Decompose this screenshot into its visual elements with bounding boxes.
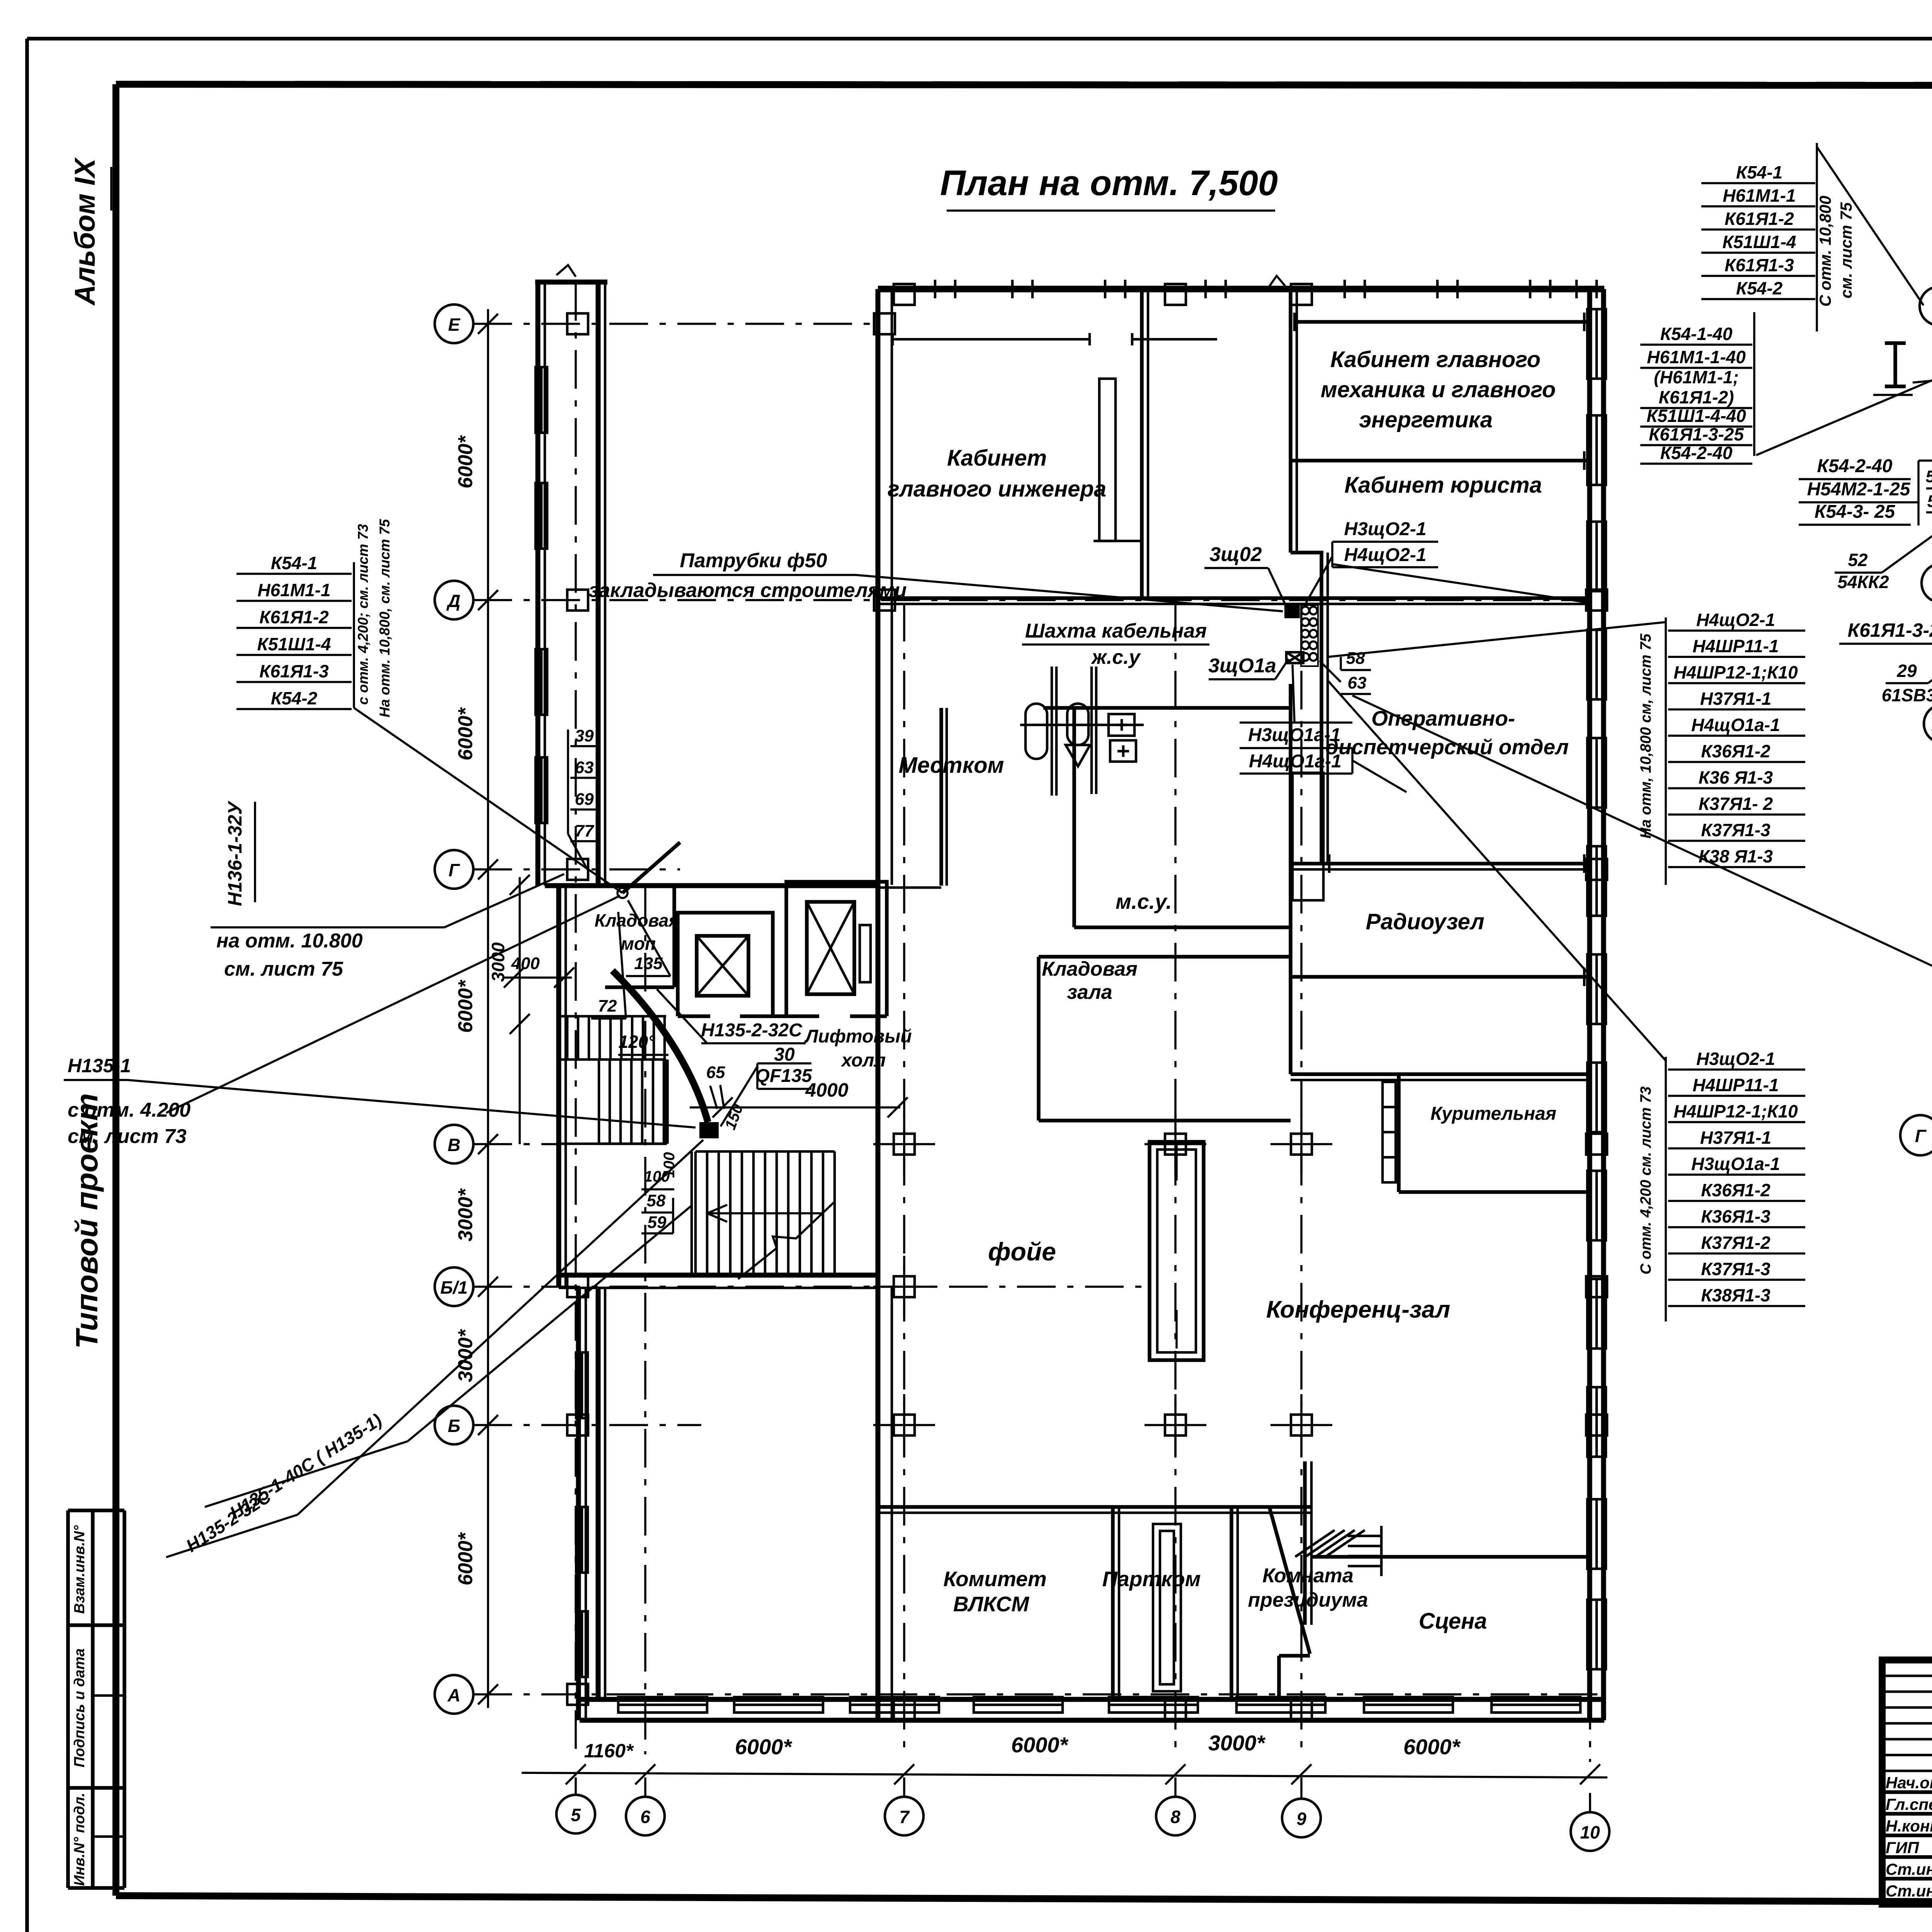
top wall break mark [1267, 276, 1285, 289]
long diagonal to section I [1352, 696, 1932, 1058]
svg-text:К61Я1-2): К61Я1-2) [1659, 387, 1734, 407]
operative room bottom [1291, 862, 1590, 866]
svg-text:Радиоузел: Радиоузел [1366, 909, 1484, 934]
svg-text:Н4ШР12-1;К10: Н4ШР12-1;К10 [1673, 1101, 1798, 1121]
svg-text:Н4щО1а-1: Н4щО1а-1 [1691, 715, 1780, 735]
furniture line engineer room [893, 338, 1090, 341]
svg-text:6000*: 6000* [454, 1532, 477, 1585]
left wing outer wall lower [576, 1287, 581, 1720]
svg-text:см. лист 75: см. лист 75 [1837, 202, 1855, 298]
VLKSM/Partkom wall [1111, 1507, 1115, 1699]
svg-text:закладываются строителями: закладываются строителями [588, 579, 906, 602]
svg-text:Г: Г [1915, 1126, 1927, 1146]
closet in engineer office [1099, 379, 1116, 541]
msu top wall [1043, 706, 1291, 710]
right wall windows [1587, 309, 1606, 379]
left dimension chain [487, 309, 489, 1708]
svg-text:6000*: 6000* [454, 707, 477, 760]
presidium corner steps [1348, 1535, 1381, 1537]
svg-text:Н37Я1-1: Н37Я1-1 [1700, 689, 1771, 709]
svg-text:фойе: фойе [988, 1237, 1056, 1266]
svg-text:Сцена: Сцена [1419, 1609, 1487, 1634]
grid column 9 [1282, 1799, 1321, 1837]
svg-text:механика и главного: механика и главного [1321, 377, 1556, 402]
QF135 switch box [699, 1122, 719, 1138]
svg-text:29: 29 [1896, 661, 1917, 681]
svg-text:К54-2-40: К54-2-40 [1660, 443, 1733, 463]
left wing column squares [567, 313, 588, 334]
svg-text:Б/1: Б/1 [440, 1277, 468, 1298]
svg-text:Н61М1-1: Н61М1-1 [257, 580, 330, 600]
msu capsule 2 [1067, 704, 1088, 745]
svg-text:58: 58 [647, 1191, 666, 1210]
stairs arrow [707, 1212, 823, 1214]
svg-text:Н.контр.: Н.контр. [1886, 1817, 1932, 1835]
grid row В [435, 1125, 473, 1163]
svg-text:61SВ3: 61SВ3 [1882, 685, 1932, 705]
svg-text:К36Я1-2: К36Я1-2 [1701, 741, 1770, 761]
svg-text:Н3щО1а-1: Н3щО1а-1 [1691, 1154, 1780, 1174]
shaft switchboard 3shch02 black [1284, 605, 1300, 618]
svg-text:Н4щО2-1: Н4щО2-1 [1696, 610, 1775, 630]
svg-text:Н135-1: Н135-1 [68, 1055, 131, 1077]
svg-text:К61Я1-2: К61Я1-2 [259, 607, 329, 627]
svg-text:58: 58 [1926, 467, 1932, 486]
grid row А [435, 1675, 473, 1714]
svg-text:Кабинет главного: Кабинет главного [1330, 347, 1541, 372]
D row axis across plan [881, 599, 1590, 601]
banister [665, 1060, 669, 1144]
svg-text:Н135-2-32С: Н135-2-32С [701, 1020, 803, 1041]
A row axis across plan [607, 1693, 1604, 1696]
svg-text:Н4ШР11-1: Н4ШР11-1 [1692, 636, 1779, 656]
roof grid circles [1920, 287, 1932, 325]
leader H135-2-32C [657, 989, 707, 1043]
svg-text:Б: Б [448, 1416, 461, 1436]
svg-text:3щО1а: 3щО1а [1208, 655, 1276, 677]
leader 30/QF135 to box [721, 1066, 757, 1126]
B1 row axis into foyer [881, 1286, 1144, 1288]
left wing windows upper [536, 367, 547, 433]
stair block west wall [556, 886, 561, 1287]
svg-text:см. лист 75: см. лист 75 [224, 958, 344, 980]
main left wall [876, 289, 881, 1720]
svg-text:К61Я1-3-25: К61Я1-3-25 [1649, 424, 1744, 444]
svg-text:К37Я1-2: К37Я1-2 [1701, 1233, 1770, 1253]
svg-text:К54-1-40: К54-1-40 [1660, 324, 1733, 344]
svg-text:Партком: Партком [1102, 1567, 1201, 1591]
svg-text:К54-1: К54-1 [271, 553, 317, 573]
svg-text:Д: Д [446, 591, 460, 611]
main right wall [1587, 289, 1592, 1720]
svg-text:К37Я1- 2: К37Я1- 2 [1699, 794, 1773, 814]
svg-text:63: 63 [1348, 673, 1367, 692]
svg-text:Н54М2-1-25: Н54М2-1-25 [1807, 479, 1911, 500]
svg-text:Ст.инж: Ст.инж [1886, 1860, 1932, 1878]
stage mini steps [1295, 1530, 1335, 1557]
svg-text:Альбом IX: Альбом IX [69, 157, 101, 306]
svg-text:К51Ш1-4-40: К51Ш1-4-40 [1646, 406, 1746, 426]
stairs left flight band [599, 1143, 667, 1145]
svg-text:К61Я1-3-25: К61Я1-3-25 [1847, 619, 1932, 641]
svg-text:К38 Я1-3: К38 Я1-3 [1699, 846, 1773, 866]
left wall column squares [874, 313, 895, 334]
svg-text:План на отм. 7,500: План на отм. 7,500 [940, 163, 1278, 203]
svg-text:На отм. 10,800, см. лист 75: На отм. 10,800, см. лист 75 [377, 519, 393, 718]
svg-text:К38Я1-3: К38Я1-3 [1701, 1285, 1770, 1305]
svg-text:К37Я1-3: К37Я1-3 [1701, 820, 1770, 840]
partition mechanika top [1294, 320, 1590, 324]
svg-text:ГИП: ГИП [1886, 1838, 1919, 1857]
left wing windows lower [576, 1352, 588, 1418]
secondary dim 3000 near stairs [519, 877, 521, 1144]
svg-text:К61Я1-2: К61Я1-2 [1725, 209, 1794, 229]
svg-text:39: 39 [575, 726, 594, 745]
msu capsule 1 [1026, 704, 1047, 759]
svg-text:С отм. 10,800: С отм. 10,800 [1816, 196, 1834, 306]
svg-text:К51Ш1-4: К51Ш1-4 [1723, 232, 1796, 252]
bottom dimension line [522, 1773, 1607, 1777]
svg-text:1160*: 1160* [584, 1740, 634, 1762]
svg-text:К36Я1-3: К36Я1-3 [1701, 1206, 1770, 1226]
interior columns [1165, 1134, 1186, 1155]
svg-text:65: 65 [706, 1063, 725, 1082]
junction dot kladovaya [617, 888, 628, 898]
svg-text:С отм. 4,200 см. лист 73: С отм. 4,200 см. лист 73 [1638, 1086, 1654, 1274]
grid row Д [435, 581, 473, 619]
svg-text:72: 72 [598, 997, 617, 1015]
title block upper small rows [1882, 1675, 1932, 1677]
svg-text:77: 77 [575, 821, 595, 840]
svg-text:63: 63 [575, 758, 594, 777]
svg-text:3000: 3000 [488, 942, 508, 982]
svg-text:Н61М1-1-40: Н61М1-1-40 [1647, 347, 1746, 367]
svg-text:президиума: президиума [1248, 1589, 1368, 1611]
bottom rooms top wall [878, 1505, 1312, 1509]
svg-text:А: А [447, 1685, 460, 1705]
svg-text:Кабинет: Кабинет [947, 446, 1047, 471]
svg-text:5: 5 [571, 1805, 581, 1825]
svg-text:на отм. 10.800: на отм. 10.800 [216, 930, 363, 952]
partition doubles [1118, 1507, 1121, 1699]
section mark I (near roof) [1893, 343, 1897, 386]
svg-text:Е: Е [448, 315, 461, 335]
svg-text:К51Ш1-4: К51Ш1-4 [257, 634, 331, 654]
lift shaft 2 [786, 882, 887, 1016]
stairs break line [738, 1202, 835, 1279]
main top wall [878, 286, 1604, 293]
svg-text:54КК2: 54КК2 [1837, 572, 1889, 592]
svg-text:4000: 4000 [805, 1079, 848, 1101]
kuritelnaya walls [1397, 1074, 1401, 1192]
svg-text:К37Я1-3: К37Я1-3 [1701, 1259, 1770, 1279]
svg-text:3щ02: 3щ02 [1209, 543, 1262, 566]
svg-text:Взам.инв.N°: Взам.инв.N° [71, 1525, 88, 1614]
svg-text:Н37Я1-1: Н37Я1-1 [1700, 1128, 1771, 1148]
svg-text:3000*: 3000* [454, 1188, 477, 1242]
kuritelnaya shaft [1383, 1082, 1396, 1182]
stairs lower flight [696, 1150, 835, 1153]
svg-text:6000*: 6000* [1011, 1733, 1069, 1757]
leaders kladovaya junction [628, 900, 670, 976]
leader from 39/63 stack to wing [568, 834, 587, 869]
svg-text:58: 58 [1346, 649, 1365, 668]
svg-text:Лифтовый: Лифтовый [804, 1026, 912, 1047]
svg-text:Конференц-зал: Конференц-зал [1266, 1296, 1450, 1323]
lift shaft 1 [678, 913, 773, 1016]
svg-text:Н61М1-1: Н61М1-1 [1723, 185, 1796, 206]
title block signature rows [1882, 1790, 1932, 1794]
stairs upper flight [560, 1015, 666, 1018]
svg-text:К54-1: К54-1 [1736, 162, 1782, 182]
left wing inner wall [596, 282, 601, 886]
svg-text:с отм. 4,200; см. лист 73: с отм. 4,200; см. лист 73 [355, 524, 371, 705]
svg-text:Шахта кабельная: Шахта кабельная [1025, 620, 1207, 642]
grid column 7 [885, 1797, 923, 1835]
shaft pebble column [1301, 605, 1318, 666]
svg-text:6000*: 6000* [454, 979, 477, 1033]
svg-text:К36 Я1-3: К36 Я1-3 [1699, 767, 1773, 787]
grid column 6 [626, 1797, 665, 1835]
left wing outer wall upper [536, 282, 541, 886]
svg-text:9: 9 [1296, 1809, 1306, 1829]
svg-text:ВЛКСМ: ВЛКСМ [953, 1592, 1029, 1616]
msu equipment bars [1051, 667, 1053, 796]
svg-text:30: 30 [774, 1044, 795, 1065]
svg-text:моп: моп [621, 934, 656, 954]
stair block top wall [545, 883, 878, 888]
svg-text:Н3щО2-1: Н3щО2-1 [1344, 519, 1427, 539]
stair mid stringers [690, 1151, 693, 1275]
svg-text:К54-2-40: К54-2-40 [1817, 456, 1893, 476]
svg-text:К54-3- 25: К54-3- 25 [1815, 502, 1896, 522]
stage front edge [1311, 1555, 1590, 1559]
title block outer [1882, 1660, 1932, 1904]
svg-text:52: 52 [1848, 550, 1868, 570]
cable curve from QF135 [612, 971, 708, 1122]
svg-text:7: 7 [899, 1807, 910, 1827]
grid column 5 [556, 1795, 595, 1833]
svg-text:Комната: Комната [1262, 1565, 1354, 1587]
svg-text:3000*: 3000* [454, 1328, 477, 1382]
grid row Г [435, 850, 473, 889]
svg-text:Н136-1-32У: Н136-1-32У [224, 800, 246, 906]
svg-text:ж.с.у: ж.с.у [1090, 646, 1141, 668]
svg-text:QF135: QF135 [755, 1066, 813, 1086]
mini stack 39/63/69/77 [567, 730, 569, 834]
svg-text:Н3щО2-1: Н3щО2-1 [1696, 1049, 1775, 1069]
kladovaya mop walls [672, 886, 676, 987]
svg-text:10: 10 [1580, 1822, 1600, 1842]
svg-text:Комитет: Комитет [943, 1567, 1046, 1591]
svg-text:Инв.N° подл.: Инв.N° подл. [71, 1793, 88, 1886]
svg-text:К61Я1-3: К61Я1-3 [259, 661, 329, 681]
main bottom wall [580, 1697, 1604, 1702]
kladovaya zala walls [1037, 957, 1041, 1121]
perimeter column squares [894, 284, 915, 305]
operative room cabinet [1293, 773, 1323, 900]
svg-text:Г: Г [449, 860, 460, 880]
svg-text:Н4ШР12-1;К10: Н4ШР12-1;К10 [1673, 662, 1798, 682]
svg-text:В: В [447, 1135, 460, 1155]
svg-text:На отм, 10,800 см, лист 75: На отм, 10,800 см, лист 75 [1638, 633, 1654, 839]
shaft 3shch01a X-box [1286, 652, 1303, 663]
Partkom/presidium wall [1230, 1507, 1233, 1699]
bottom wall windows [618, 1697, 707, 1713]
lift lobby wall segments [678, 1014, 710, 1018]
partkom cabinet [1153, 1524, 1181, 1691]
svg-text:120°: 120° [618, 1032, 655, 1052]
svg-text:Подпись и дата: Подпись и дата [71, 1648, 88, 1767]
svg-text:6000*: 6000* [735, 1735, 793, 1759]
svg-text:зала: зала [1067, 981, 1112, 1003]
mestkom corridor wall [939, 708, 943, 886]
wall above kuritelnaya [1291, 1072, 1590, 1076]
svg-text:Н4щО2-1: Н4щО2-1 [1344, 545, 1427, 565]
column axes dash-dot [575, 282, 577, 1754]
partition engineer/mechanic vertical [1140, 289, 1144, 598]
svg-text:холл: холл [840, 1050, 886, 1071]
svg-text:К36Я1-2: К36Я1-2 [1701, 1180, 1770, 1200]
top wall window ticks [934, 280, 937, 298]
radio room bottom [1291, 975, 1590, 979]
border frame outer [27, 37, 1932, 41]
svg-text:Курительная: Курительная [1430, 1104, 1556, 1124]
left attachment table [68, 1509, 124, 1512]
detail G circle [1900, 1115, 1932, 1155]
msu pointer [1066, 745, 1090, 766]
svg-text:Патрубки ф50: Патрубки ф50 [680, 549, 827, 572]
grid column 8 [1156, 1797, 1195, 1835]
svg-text:69: 69 [575, 790, 594, 809]
svg-text:8: 8 [1170, 1807, 1180, 1827]
partition end ticks [1293, 313, 1296, 331]
svg-text:К54-2: К54-2 [271, 688, 318, 708]
svg-text:Кладовая: Кладовая [595, 910, 679, 930]
svg-text:6: 6 [640, 1807, 650, 1827]
svg-text:Местком: Местком [899, 753, 1004, 778]
svg-text:3000*: 3000* [1208, 1731, 1266, 1755]
svg-text:Оперативно-: Оперативно- [1371, 706, 1515, 730]
svg-text:Кабинет юриста: Кабинет юриста [1344, 473, 1542, 498]
grid column 10 [1571, 1812, 1609, 1851]
long wall left of operative room [1289, 289, 1293, 553]
left wing top cap [535, 280, 607, 285]
svg-text:400: 400 [511, 954, 540, 973]
msu bottom wall [1074, 925, 1291, 929]
partition mechanika/jurista [1291, 459, 1590, 463]
border frame inner [116, 84, 1932, 86]
svg-text:см. лист 73: см. лист 73 [68, 1125, 187, 1148]
svg-text:Кладовая: Кладовая [1042, 958, 1137, 980]
stair block bottom wall B/1 [559, 1273, 878, 1278]
stage walls [1269, 1507, 1310, 1654]
partition D-row wall [878, 596, 1590, 600]
svg-text:Ст.инж.: Ст.инж. [1886, 1882, 1932, 1900]
msu left wall [1072, 708, 1076, 927]
svg-text:К54-2: К54-2 [1736, 278, 1783, 298]
svg-text:энергетика: энергетика [1359, 407, 1493, 432]
grid row Б/1 [435, 1267, 473, 1306]
svg-text:м.с.у.: м.с.у. [1116, 889, 1172, 913]
grid row Б [435, 1406, 473, 1444]
svg-text:Нач.отд.: Нач.отд. [1886, 1774, 1932, 1792]
foyer folding partition [1150, 1142, 1204, 1360]
svg-text:59: 59 [1927, 492, 1932, 511]
svg-text:(Н61М1-1;: (Н61М1-1; [1654, 367, 1739, 387]
svg-text:Н4ШР11-1: Н4ШР11-1 [1692, 1075, 1779, 1095]
svg-text:К61Я1-3: К61Я1-3 [1725, 255, 1794, 275]
svg-text:Гл.спец.: Гл.спец. [1886, 1795, 1932, 1813]
grid row Е [435, 304, 473, 343]
msu plus boxes [1109, 714, 1134, 736]
svg-text:главного инженера: главного инженера [888, 476, 1106, 502]
svg-text:6000*: 6000* [1403, 1735, 1461, 1759]
svg-text:6000*: 6000* [454, 435, 477, 488]
